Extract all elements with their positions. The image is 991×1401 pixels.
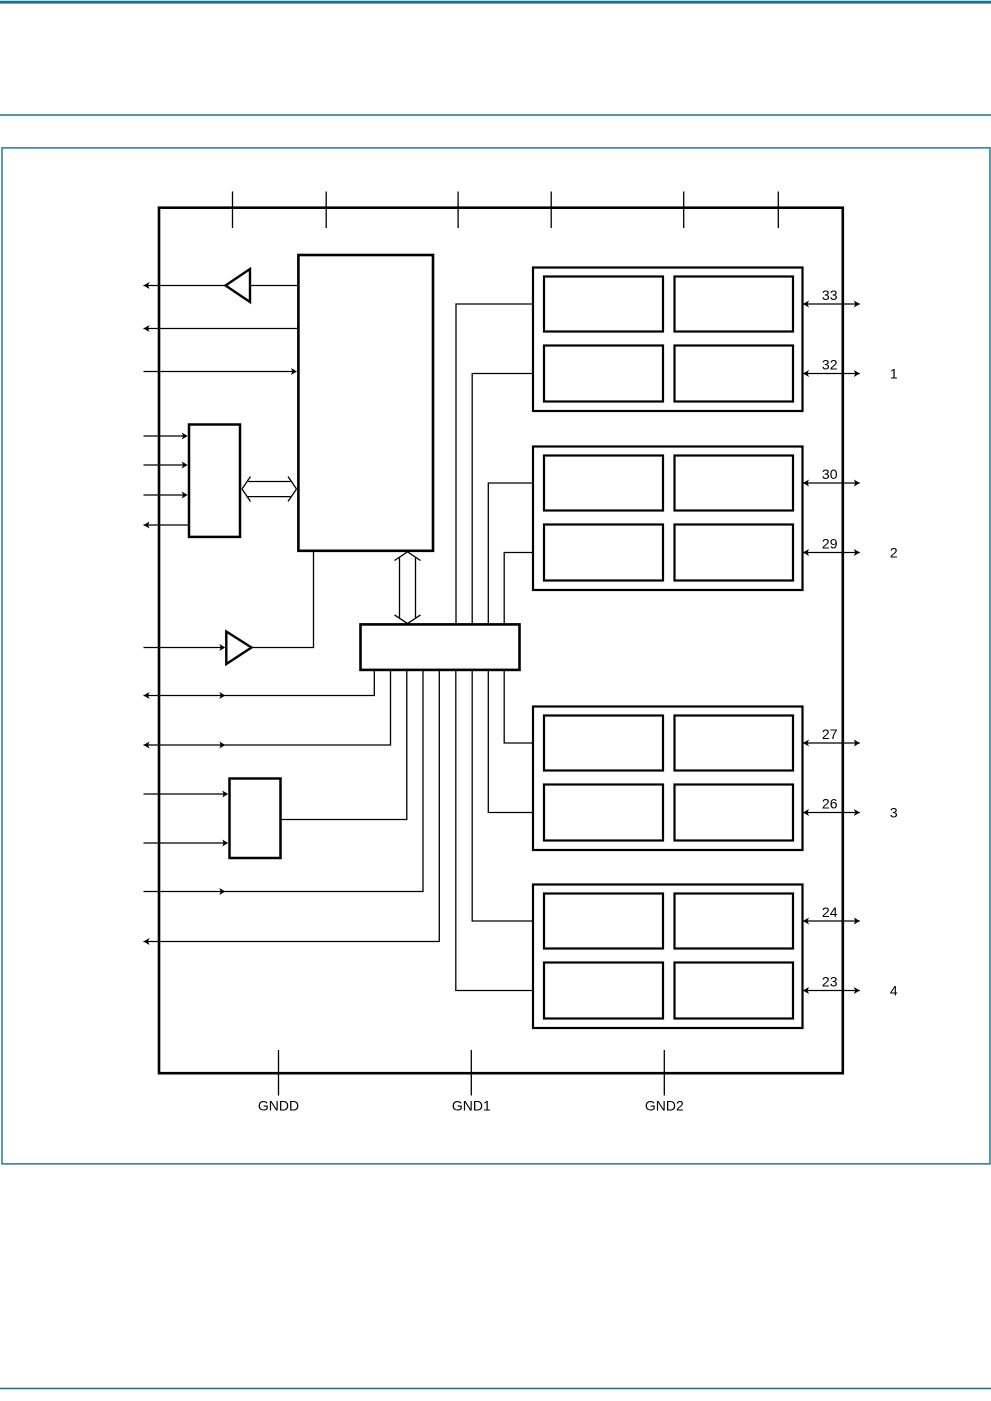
svg-text:24: 24 — [822, 904, 838, 920]
pin 24 label — [822, 904, 838, 920]
channel 2 driver stage upper right — [675, 456, 794, 511]
svg-text:1: 1 — [890, 366, 898, 382]
channel 3 group box — [533, 707, 803, 851]
wire bidirectional pin 10 — [144, 671, 391, 749]
pin 26 label — [822, 796, 838, 812]
interface register block — [189, 425, 240, 537]
channel 4 driver stage upper right — [675, 894, 794, 949]
pin 30 label — [822, 466, 838, 482]
channel 3 number — [890, 805, 898, 821]
wire A1 output — [144, 282, 226, 289]
pin 30 arrow — [803, 480, 860, 487]
svg-text:33: 33 — [822, 287, 838, 303]
output buffer A1 — [226, 269, 251, 302]
pin 29 arrow — [803, 549, 860, 556]
channel 1 group box — [533, 268, 803, 412]
wire bus to channel 4 lower — [456, 671, 533, 991]
GND2 pin tick — [663, 1050, 665, 1096]
input buffer A2 — [226, 632, 251, 665]
wire oscillator input 1 — [144, 791, 229, 798]
supply pin tick 5 — [683, 192, 685, 229]
wire bus to channel 3 lower — [488, 671, 533, 813]
pin 32 label — [822, 357, 838, 373]
oscillator block — [230, 779, 281, 859]
svg-text:GND1: GND1 — [452, 1098, 491, 1114]
internal bus block — [361, 624, 520, 670]
pin 32 arrow — [803, 370, 860, 377]
wire oscillator input 2 — [144, 840, 229, 847]
pin 26 arrow — [803, 809, 860, 816]
channel 3 driver stage lower right — [675, 785, 794, 841]
supply pin tick 2 — [325, 192, 327, 229]
pin 27 label — [822, 726, 838, 742]
wire A2 input — [144, 644, 226, 651]
supply pin tick 1 — [232, 192, 234, 229]
channel 1 driver stage upper right — [675, 277, 794, 332]
pin 24 arrow — [803, 918, 860, 925]
svg-text:23: 23 — [822, 974, 838, 990]
supply pin tick 6 — [777, 192, 779, 229]
register-control bidirectional open arrow — [242, 477, 297, 502]
svg-text:26: 26 — [822, 796, 838, 812]
channel 4 driver stage lower right — [675, 963, 794, 1019]
wire input pin 3 — [144, 368, 298, 375]
GND1 label — [452, 1098, 491, 1114]
wire register input 3 — [144, 492, 188, 499]
svg-text:2: 2 — [890, 545, 898, 561]
svg-text:GNDD: GNDD — [258, 1098, 299, 1114]
wire A1 input from control block — [250, 285, 298, 287]
wire oscillator output to bus — [281, 671, 407, 820]
channel 2 driver stage upper left — [544, 456, 663, 511]
channel 4 group box — [533, 885, 803, 1029]
channel 4 driver stage lower left — [544, 963, 663, 1019]
pin 29 label — [822, 536, 838, 552]
header rule — [0, 114, 991, 116]
svg-text:30: 30 — [822, 466, 838, 482]
page bottom rule — [0, 1388, 991, 1390]
wire bus to channel 1 lower — [472, 374, 533, 625]
pin 23 arrow — [803, 987, 860, 994]
supply pin tick 3 — [457, 192, 459, 229]
channel 2 number — [890, 545, 898, 561]
pin 33 label — [822, 287, 838, 303]
wire bus to channel 2 lower — [504, 553, 533, 625]
control logic block — [298, 255, 433, 551]
svg-text:29: 29 — [822, 536, 838, 552]
svg-text:4: 4 — [890, 983, 898, 999]
GND2 label — [645, 1098, 684, 1114]
GNDD label — [258, 1098, 299, 1114]
svg-text:32: 32 — [822, 357, 838, 373]
page top rule — [0, 1, 991, 4]
channel 1 driver stage lower right — [675, 346, 794, 402]
channel 2 driver stage lower right — [675, 525, 794, 581]
GND1 pin tick — [470, 1050, 472, 1096]
svg-text:3: 3 — [890, 805, 898, 821]
channel 3 driver stage upper right — [675, 716, 794, 771]
wire bus to channel 4 upper — [472, 671, 533, 921]
pin 27 arrow — [803, 740, 860, 747]
channel 2 driver stage lower left — [544, 525, 663, 581]
figure frame — [2, 148, 990, 1164]
svg-text:27: 27 — [822, 726, 838, 742]
channel 3 driver stage lower left — [544, 785, 663, 841]
wire A2 output to control block — [252, 552, 314, 648]
wire bus to channel 3 upper — [504, 671, 533, 743]
wire register input 1 — [144, 433, 188, 440]
IC boundary — [159, 208, 843, 1073]
wire register input 2 — [144, 462, 188, 469]
channel 4 driver stage upper left — [544, 894, 663, 949]
wire output pin 14 — [144, 671, 440, 945]
control-bus bidirectional open arrow — [395, 552, 421, 624]
channel 1 driver stage lower left — [544, 346, 663, 402]
pin 23 label — [822, 974, 838, 990]
channel 4 number — [890, 983, 898, 999]
channel 3 driver stage upper left — [544, 716, 663, 771]
svg-text:GND2: GND2 — [645, 1098, 684, 1114]
wire bidirectional pin 9 — [144, 671, 375, 699]
wire input pin 13 — [144, 671, 424, 895]
wire output pin 2 — [144, 325, 299, 332]
channel 2 group box — [533, 447, 803, 591]
wire bus to channel 1 upper — [456, 304, 533, 624]
GNDD pin tick — [278, 1050, 280, 1096]
supply pin tick 4 — [550, 192, 552, 229]
pin 33 arrow — [803, 301, 860, 308]
channel 1 driver stage upper left — [544, 277, 663, 332]
wire bus to channel 2 upper — [488, 483, 533, 624]
wire register output — [144, 522, 190, 529]
channel 1 number — [890, 366, 898, 382]
